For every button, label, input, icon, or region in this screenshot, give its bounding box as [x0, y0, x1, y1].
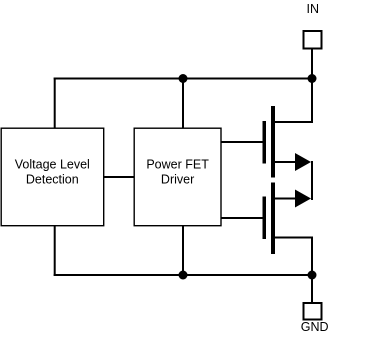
wire from top rail to U2 top — [182, 78, 184, 129]
transistor Q2 gate bar — [263, 197, 267, 240]
wire between U1 and U2 — [104, 176, 135, 178]
svg-text:Driver: Driver — [161, 173, 194, 187]
block U1 Voltage Level Detection — [1, 128, 104, 226]
wire bottom rail — [54, 274, 313, 276]
wire common source segment — [311, 161, 313, 200]
svg-text:GND: GND — [301, 320, 329, 334]
transistor Q1 channel bar — [271, 106, 275, 178]
svg-text:Voltage Level: Voltage Level — [15, 158, 90, 172]
wire Q2 drain to bottom rail — [311, 237, 313, 277]
junction dot top rail / IN — [308, 74, 317, 83]
terminal IN square — [304, 31, 322, 49]
transistor Q2 gate wire — [221, 217, 263, 219]
svg-text:Detection: Detection — [26, 173, 79, 187]
transistor Q2 drain wire — [273, 237, 313, 239]
transistor Q1 source wire — [273, 161, 306, 163]
wire top rail — [54, 78, 313, 80]
block U2 Power FET Driver — [134, 128, 221, 226]
svg-text:Power FET: Power FET — [146, 158, 209, 172]
wire IN vertical — [311, 50, 313, 124]
transistor Q1 gate bar — [263, 121, 267, 164]
junction dot bottom rail / U2 — [179, 271, 188, 280]
transistor Q2 source wire — [273, 198, 306, 200]
wire left vertical from U1 bottom to bottom rail — [54, 226, 56, 277]
transistor Q1 gate wire — [221, 141, 263, 143]
transistor Q1 drain wire — [273, 121, 313, 123]
terminal GND square — [304, 303, 322, 320]
wire left vertical from top rail to U1 top — [54, 78, 56, 129]
wire GND vertical — [311, 274, 313, 303]
svg-text:IN: IN — [307, 2, 320, 16]
junction dot bottom rail / GND — [308, 271, 317, 280]
wire from U2 bottom to bottom rail — [182, 226, 184, 277]
junction dot top rail / U2 — [179, 74, 188, 83]
transistor Q2 channel bar — [271, 183, 275, 255]
transistor Q1 source arrow — [295, 153, 311, 171]
transistor Q2 source arrow — [295, 190, 311, 208]
